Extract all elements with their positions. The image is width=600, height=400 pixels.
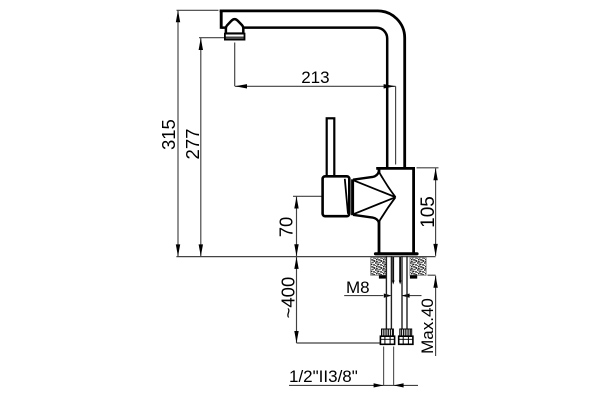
svg-text:70: 70	[276, 217, 297, 238]
svg-text:1/2"II3/8": 1/2"II3/8"	[289, 367, 358, 386]
svg-text:277: 277	[182, 129, 203, 160]
svg-text:315: 315	[158, 119, 179, 150]
svg-text:105: 105	[418, 196, 439, 228]
svg-text:M8: M8	[346, 278, 370, 297]
svg-text:~400: ~400	[277, 277, 298, 319]
svg-text:Max.40: Max.40	[418, 298, 437, 354]
svg-text:213: 213	[301, 68, 329, 87]
